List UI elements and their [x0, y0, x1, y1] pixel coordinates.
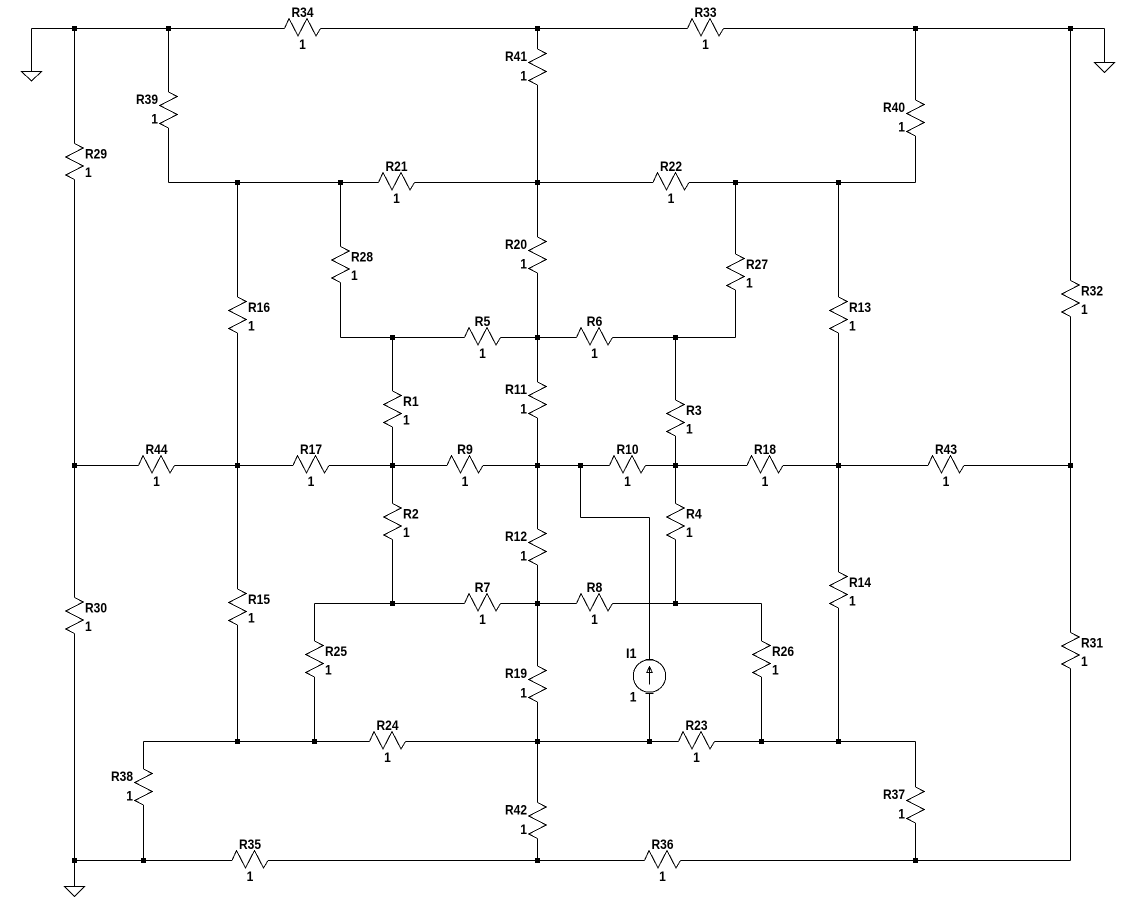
resistor R30	[66, 598, 107, 635]
resistor R42	[505, 802, 546, 839]
resistor R18	[747, 441, 783, 489]
resistor R34	[285, 4, 321, 52]
junction at (74.5,465.5)	[72, 463, 77, 468]
resistor R32	[1062, 281, 1103, 318]
resistor R41	[505, 48, 546, 85]
resistor R14	[830, 572, 871, 609]
svg-text:R44: R44	[146, 441, 168, 457]
svg-text:R21: R21	[386, 158, 408, 174]
junction at (838.5,465.5)	[836, 463, 841, 468]
svg-text:1: 1	[520, 548, 527, 564]
svg-text:R19: R19	[505, 665, 527, 681]
svg-text:R5: R5	[475, 313, 491, 329]
svg-text:R42: R42	[505, 802, 527, 818]
resistor R31	[1062, 633, 1103, 670]
resistor R27	[727, 254, 768, 291]
svg-text:1: 1	[520, 256, 527, 272]
wire bus4 middle rail	[75, 465, 139, 467]
svg-text:R12: R12	[505, 528, 527, 544]
svg-text:R10: R10	[617, 441, 639, 457]
wire R25 column	[314, 604, 316, 642]
junction at (838.5,182.5)	[836, 180, 841, 185]
junction at (1070.5,465.5)	[1068, 463, 1073, 468]
svg-text:R38: R38	[111, 768, 133, 784]
svg-text:1: 1	[85, 618, 92, 634]
resistor R24	[370, 717, 406, 765]
wire bus5	[315, 603, 465, 605]
svg-text:1: 1	[659, 868, 666, 884]
svg-text:1: 1	[702, 36, 709, 52]
wire right bus column x=1070	[1070, 29, 1072, 281]
svg-text:1: 1	[772, 662, 779, 678]
svg-text:1: 1	[520, 401, 527, 417]
resistor R15	[229, 589, 270, 626]
resistor R33	[688, 4, 724, 52]
resistor R12	[505, 528, 546, 565]
junction at (314.5,741.5)	[312, 739, 317, 744]
svg-text:R16: R16	[248, 299, 270, 315]
svg-text:1: 1	[247, 868, 254, 884]
junction at (392.5,465.5)	[390, 463, 395, 468]
svg-text:1: 1	[591, 611, 598, 627]
resistor R36	[645, 836, 681, 884]
svg-text:R31: R31	[1081, 635, 1103, 651]
junction at (392.5,603.5)	[390, 601, 395, 606]
svg-text:R9: R9	[457, 441, 473, 457]
junction at (735.5,182.5)	[733, 180, 738, 185]
junction at (537.5,603.5)	[535, 601, 540, 606]
svg-text:R11: R11	[505, 381, 527, 397]
svg-text:1: 1	[126, 788, 133, 804]
svg-text:1: 1	[308, 473, 315, 489]
svg-text:1: 1	[1081, 653, 1088, 669]
svg-text:R14: R14	[849, 574, 871, 590]
resistor R26	[753, 641, 794, 678]
svg-text:1: 1	[746, 275, 753, 291]
svg-text:R28: R28	[351, 249, 373, 265]
junction at (915.5,860.5)	[913, 858, 918, 863]
resistor R1	[384, 391, 419, 428]
svg-text:1: 1	[898, 119, 905, 135]
svg-text:1: 1	[520, 821, 527, 837]
svg-text:1: 1	[462, 473, 469, 489]
resistor R21	[379, 158, 415, 206]
wire center column x=537	[537, 29, 539, 50]
resistor R22	[653, 158, 689, 206]
wire I1 column	[649, 518, 651, 660]
junction at (74.5,860.5)	[72, 858, 77, 863]
svg-text:R32: R32	[1081, 283, 1103, 299]
svg-text:R43: R43	[935, 441, 957, 457]
junction at (143.5,860.5)	[141, 858, 146, 863]
svg-text:1: 1	[762, 473, 769, 489]
wire bus2	[169, 182, 379, 184]
svg-text:1: 1	[153, 473, 160, 489]
wire R40/R37 column	[915, 29, 917, 101]
svg-text:R8: R8	[587, 579, 603, 595]
svg-text:1: 1	[693, 749, 700, 765]
wire R26 column	[761, 604, 763, 642]
junction at (675.5,337.5)	[673, 335, 678, 340]
svg-text:R2: R2	[403, 506, 419, 522]
resistor R19	[505, 665, 546, 702]
junction at (675.5,465.5)	[673, 463, 678, 468]
svg-text:1: 1	[849, 593, 856, 609]
resistor R39	[136, 91, 177, 128]
resistor R38	[111, 768, 152, 805]
resistor R20	[505, 236, 546, 273]
resistor R23	[679, 717, 715, 765]
resistor R28	[332, 247, 373, 284]
svg-text:R30: R30	[85, 600, 107, 616]
svg-text:R6: R6	[587, 313, 603, 329]
svg-text:1: 1	[384, 749, 391, 765]
resistor R40	[883, 99, 924, 136]
junction at (537.5,465.5)	[535, 463, 540, 468]
junction at (537.5,860.5)	[535, 858, 540, 863]
svg-text:1: 1	[325, 662, 332, 678]
wire right ground stub column	[1104, 29, 1106, 63]
svg-text:R25: R25	[325, 643, 347, 659]
svg-text:1: 1	[248, 610, 255, 626]
junction at (761.5,741.5)	[759, 739, 764, 744]
ground bottom-left	[65, 887, 85, 897]
svg-text:1: 1	[479, 611, 486, 627]
resistor R16	[229, 297, 270, 334]
wire R39 column	[168, 29, 170, 93]
junction at (237.5,182.5)	[235, 180, 240, 185]
svg-text:R13: R13	[849, 299, 871, 315]
junction at (392.5,337.5)	[390, 335, 395, 340]
resistor R8	[577, 579, 613, 627]
svg-text:1: 1	[85, 164, 92, 180]
resistor R29	[66, 144, 107, 181]
junction at (675.5,603.5)	[673, 601, 678, 606]
ground top-left	[22, 72, 42, 82]
ground top-right	[1095, 63, 1115, 73]
wire jog from node to I1	[580, 466, 582, 518]
svg-text:1: 1	[520, 68, 527, 84]
svg-text:1: 1	[403, 524, 410, 540]
resistor R2	[384, 504, 419, 541]
wire R16/R15 column	[237, 183, 239, 298]
svg-text:1: 1	[351, 267, 358, 283]
svg-text:1: 1	[1081, 301, 1088, 317]
wire left ground stub column	[31, 29, 33, 72]
junction at (649.5,741.5)	[647, 739, 652, 744]
svg-text:1: 1	[403, 412, 410, 428]
svg-text:R39: R39	[136, 91, 158, 107]
junction at (537.5,337.5)	[535, 335, 540, 340]
junction at (1070.5,28.5)	[1068, 26, 1073, 31]
wire R27 column	[735, 183, 737, 255]
resistor R13	[830, 297, 871, 334]
svg-text:1: 1	[898, 806, 905, 822]
wire bus7 bottom rail	[75, 860, 233, 862]
svg-text:1: 1	[479, 345, 486, 361]
junction at (537.5,28.5)	[535, 26, 540, 31]
svg-text:R33: R33	[695, 4, 717, 20]
svg-text:1: 1	[248, 318, 255, 334]
svg-text:R4: R4	[686, 506, 702, 522]
svg-text:R37: R37	[883, 786, 905, 802]
resistor R3	[667, 400, 702, 437]
resistor R9	[447, 441, 483, 489]
svg-text:R15: R15	[248, 591, 270, 607]
wire R13/R14 column	[838, 183, 840, 298]
svg-text:1: 1	[668, 190, 675, 206]
resistor R17	[293, 441, 329, 489]
svg-text:R27: R27	[746, 256, 768, 272]
svg-text:R20: R20	[505, 236, 527, 252]
resistor R6	[577, 313, 613, 361]
resistor R7	[465, 579, 501, 627]
resistor R37	[883, 786, 924, 823]
wire bus6	[144, 741, 370, 743]
resistor R44	[139, 441, 175, 489]
svg-text:R22: R22	[660, 158, 682, 174]
wire left bus column x=74	[74, 29, 76, 144]
svg-text:R7: R7	[475, 579, 491, 595]
svg-text:1: 1	[624, 473, 631, 489]
svg-text:R40: R40	[883, 99, 905, 115]
junction at (537.5,182.5)	[535, 180, 540, 185]
resistor R10	[610, 441, 646, 489]
svg-text:R1: R1	[403, 393, 419, 409]
junction at (838.5,741.5)	[836, 739, 841, 744]
svg-text:R35: R35	[239, 836, 261, 852]
svg-text:1: 1	[630, 689, 637, 705]
svg-text:R23: R23	[686, 717, 708, 733]
resistor R11	[505, 381, 546, 418]
junction at (237.5,741.5)	[235, 739, 240, 744]
junction at (74.5,28.5)	[72, 26, 77, 31]
wire R1/R2 column	[392, 338, 394, 392]
svg-text:R3: R3	[686, 402, 702, 418]
resistor R35	[232, 836, 268, 884]
svg-text:1: 1	[520, 685, 527, 701]
svg-text:R26: R26	[772, 643, 794, 659]
wire bus1 top rail	[32, 28, 285, 30]
junction at (168.5,28.5)	[166, 26, 171, 31]
wire R28 column	[340, 183, 342, 247]
wire bus3	[341, 337, 465, 339]
svg-text:1: 1	[591, 345, 598, 361]
svg-text:1: 1	[393, 190, 400, 206]
svg-text:1: 1	[943, 473, 950, 489]
svg-text:R41: R41	[505, 48, 527, 64]
wire R3/R4 column	[675, 338, 677, 401]
junction at (237.5,465.5)	[235, 463, 240, 468]
svg-text:R29: R29	[85, 146, 107, 162]
resistor R4	[667, 504, 702, 541]
wire R38 column	[143, 742, 145, 770]
svg-text:1: 1	[686, 421, 693, 437]
svg-text:R36: R36	[652, 836, 674, 852]
junction at (340.5,182.5)	[338, 180, 343, 185]
resistor R5	[465, 313, 501, 361]
svg-text:R34: R34	[292, 4, 314, 20]
current source I1	[626, 645, 666, 705]
svg-text:R17: R17	[300, 441, 322, 457]
svg-text:1: 1	[151, 111, 158, 127]
resistor R43	[928, 441, 964, 489]
junction at (915.5,28.5)	[913, 26, 918, 31]
junction at (580.5,465.5)	[578, 463, 583, 468]
svg-text:1: 1	[299, 36, 306, 52]
svg-text:R24: R24	[377, 717, 399, 733]
resistor R25	[306, 641, 347, 678]
svg-text:I1: I1	[626, 645, 637, 661]
svg-text:R18: R18	[754, 441, 776, 457]
svg-text:1: 1	[849, 318, 856, 334]
svg-text:1: 1	[686, 524, 693, 540]
junction at (537.5,741.5)	[535, 739, 540, 744]
